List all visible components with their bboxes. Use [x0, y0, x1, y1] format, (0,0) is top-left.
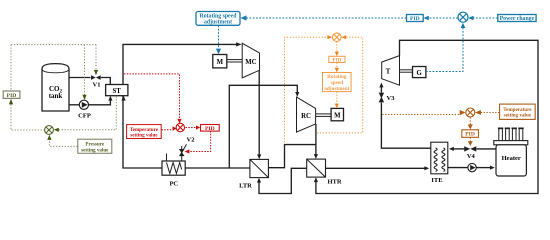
wire HTR right cold out to ITE	[326, 167, 427, 169]
wire brown comparator to PID	[469, 118, 471, 127]
rotating speed adjustment box (orange)	[323, 73, 352, 93]
rotating speed adjustment box (blue)	[196, 12, 240, 26]
pump (heater loop)	[468, 163, 476, 171]
wire red PID down to V2	[188, 131, 211, 152]
svg-text:V3: V3	[387, 95, 396, 102]
heat exchanger ITE	[431, 142, 448, 184]
shaft T-G	[400, 69, 413, 71]
wire RC branch riser junction up	[229, 85, 297, 168]
pump CFP	[78, 100, 91, 119]
svg-text:Rotating speed: Rotating speed	[200, 13, 238, 19]
arrow into olive PID bottom	[9, 99, 13, 105]
Heater	[494, 128, 528, 176]
motor M (RC)	[331, 108, 343, 120]
arrow into ITE left	[424, 166, 429, 170]
arrow into T inlet from V3	[379, 83, 383, 88]
arrow into ST bottom from CFP	[108, 96, 112, 101]
wire V1 to ST top	[101, 78, 111, 85]
arrow into blue comparator bottom	[461, 23, 466, 28]
svg-text:setting value: setting value	[81, 147, 109, 153]
orange PID box	[329, 56, 345, 63]
wire G feedback to comparator	[426, 25, 463, 72]
shaft RC-M	[316, 113, 332, 115]
arrow into blue PID right	[424, 16, 429, 21]
wire RC outlet down to HTR top	[315, 124, 317, 156]
wire LTR cold-out tap up and to comparator	[285, 37, 330, 142]
wire CFP to ST bottom	[89, 98, 111, 105]
arrow into blue comparator right	[468, 16, 473, 21]
svg-text:M: M	[334, 113, 341, 120]
arrow into HTR top	[314, 154, 318, 159]
precooler PC	[162, 146, 185, 188]
olive PID box	[3, 91, 20, 99]
power change box	[498, 15, 536, 23]
wire olive branch down to V1	[95, 45, 97, 71]
wire ST down to main line and main line to PC	[123, 96, 162, 168]
wire V3 to T bottom	[380, 86, 382, 93]
svg-text:PID: PID	[410, 16, 420, 22]
arrow into M (RC) top	[335, 104, 339, 109]
svg-text:V4: V4	[467, 153, 476, 160]
arrow into RSA box right	[241, 15, 247, 20]
motor M (MC)	[213, 55, 242, 68]
arrow into orange PID top	[335, 52, 339, 57]
arrow onto V1	[94, 70, 98, 75]
recompressor RC	[297, 97, 332, 132]
valve V2	[180, 137, 195, 156]
wire MC outlet down to LTR top	[258, 70, 260, 155]
arrow into brown comparator right	[475, 110, 481, 115]
wire power change to comparator	[471, 17, 498, 19]
svg-text:MC: MC	[245, 59, 256, 66]
wire orange PID to RSA box	[336, 63, 338, 70]
svg-text:Heater: Heater	[502, 155, 521, 162]
arrow into RC inlet	[295, 92, 299, 97]
arrow into HTR bottom	[314, 177, 318, 182]
pressure setting value box	[78, 139, 112, 153]
svg-text:PID: PID	[332, 57, 341, 63]
wire olive top distribution line	[11, 44, 96, 46]
wire orange comparator to PID	[336, 41, 338, 52]
wire ST riser up to MC inlet	[123, 44, 238, 84]
wire turbine inlet temperature tap to comparator	[382, 114, 461, 116]
temperature setting value box (red)	[127, 125, 162, 139]
wire V4 to ITE right	[452, 148, 465, 150]
arrow into red comparator left	[173, 126, 177, 130]
svg-text:CFP: CFP	[78, 113, 91, 120]
wire LTR right cold out riser to merge	[269, 145, 316, 168]
arrow into LTR bottom	[257, 178, 261, 183]
arrow into red comparator top	[177, 119, 181, 124]
compressor MC	[242, 43, 259, 78]
svg-text:PC: PC	[169, 181, 178, 188]
turbine T	[382, 56, 413, 86]
wire temperature setting value to comparator	[479, 112, 499, 114]
surge tank ST	[106, 85, 128, 96]
wire pump to heater	[476, 167, 490, 169]
valve V3	[379, 93, 395, 102]
wire red setpoint box to comparator	[161, 129, 174, 131]
svg-text:adjustment: adjustment	[204, 20, 232, 26]
brown PID box	[462, 130, 479, 138]
svg-text:setting value: setting value	[504, 113, 532, 119]
arrow into ST bottom from main loop	[122, 96, 126, 101]
svg-text:V2: V2	[187, 137, 195, 144]
wire ITE top-left out to V3 riser and T inlet	[381, 103, 430, 149]
svg-text:M: M	[217, 59, 224, 66]
wire comparator to blue PID	[426, 17, 458, 19]
svg-text:RC: RC	[301, 113, 311, 120]
arrow into heater from pump	[490, 166, 495, 170]
svg-text:G: G	[417, 70, 423, 77]
wire blue PID to rotating speed adjustment	[244, 17, 407, 19]
valve V4	[464, 146, 476, 160]
wire PC to LTR left (hot stream)	[185, 167, 250, 169]
wire orange RSA box to M motor	[336, 92, 338, 105]
olive comparator circle	[45, 126, 54, 135]
wire brown PID to V4	[469, 138, 471, 143]
svg-text:V1: V1	[93, 82, 101, 89]
arrow into ITE right from V4	[449, 147, 454, 151]
arrow into brown comparator left	[460, 110, 466, 115]
svg-text:setting value: setting value	[130, 133, 158, 139]
wire olive PID riser	[10, 45, 12, 91]
svg-text:PID: PID	[7, 93, 17, 99]
valve V1	[91, 75, 101, 88]
svg-text:PID: PID	[205, 126, 215, 132]
wire RC outlet tap to comparator	[317, 37, 363, 133]
wire ITE right to pump	[448, 167, 468, 169]
brown comparator circle	[466, 108, 475, 117]
recuperator HTR	[307, 159, 342, 185]
arrow onto V4	[468, 141, 473, 146]
wire red comparator to PID	[186, 127, 198, 129]
svg-text:adjustment: adjustment	[324, 86, 349, 92]
wire olive branch down to CFP	[84, 45, 86, 96]
svg-text:ITE: ITE	[431, 177, 442, 184]
red PID box	[201, 125, 220, 132]
arrow onto V2	[185, 149, 190, 153]
arrow into red PID left	[196, 125, 200, 129]
wire tank to CFP	[69, 104, 79, 106]
wire pressure setting value to comparator	[49, 138, 77, 147]
svg-text:ST: ST	[113, 88, 122, 95]
svg-text:tank: tank	[49, 92, 63, 100]
arrow into orange RSA top	[335, 68, 339, 73]
arrow into MC inlet	[236, 42, 241, 46]
wire ST pressure tap to comparator	[56, 96, 116, 130]
wire olive comparator to PID	[11, 105, 44, 131]
wire heater to V4	[476, 148, 495, 150]
arrow into M (MC) top	[216, 49, 221, 55]
CO2 tank	[42, 64, 69, 111]
wire HTR left hot out to LTR bottom	[259, 168, 307, 193]
arrow into comparator bottom	[47, 135, 51, 140]
wire RSA box down to M motor	[218, 26, 220, 52]
blue comparator circle	[458, 12, 468, 22]
arrow into comparator right	[54, 128, 59, 132]
arrow into brown PID top	[468, 124, 473, 129]
black flow arrowheads	[108, 42, 495, 182]
svg-text:Power change: Power change	[500, 16, 535, 22]
arrow onto CFP	[82, 95, 86, 100]
generator G	[413, 67, 426, 78]
temperature setting value box (brown)	[500, 104, 536, 119]
wire tank to V1	[69, 77, 91, 79]
arrow into orange comparator right	[341, 35, 346, 39]
svg-text:LTR: LTR	[239, 183, 252, 190]
red comparator circle	[176, 123, 184, 131]
recuperator LTR	[239, 159, 268, 189]
svg-text:T: T	[386, 69, 391, 76]
blue PID box	[407, 15, 424, 23]
orange comparator circle	[333, 33, 342, 42]
arrow into LTR top	[257, 154, 261, 159]
shaft M-MC	[227, 59, 242, 61]
svg-text:PID: PID	[465, 132, 475, 138]
arrow into orange comparator left	[327, 35, 332, 39]
wire red tap on ST riser to comparator	[124, 74, 180, 121]
svg-text:HTR: HTR	[327, 179, 341, 186]
wire big loop: T exhaust around right side to HTR bottom	[316, 40, 538, 193]
